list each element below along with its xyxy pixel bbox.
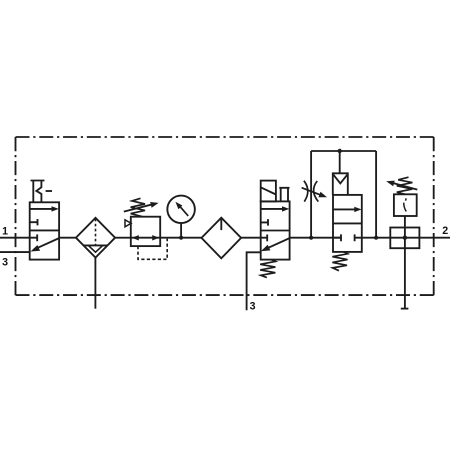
wire pressure switch riser and drop [404,216,406,309]
wire filter to regulator [115,237,131,239]
lubricator drip line [220,218,222,230]
valve V2 bottom position exhaust path arrow [261,238,290,251]
junction node right of V3 [374,236,378,240]
wire port 1 inlet [0,237,37,239]
port 1 label [2,225,8,237]
valve V3 return spring [332,252,347,271]
wire regulator to lubricator [160,237,201,239]
pressure gauge G1 stem [180,223,182,238]
regulator left arrowhead [132,235,139,240]
wire filter condensate drain [94,258,96,309]
wire valve V2 port 3 exhaust [247,252,261,310]
wire lubricator to valve V2 [241,237,267,239]
check valve poppet V [333,174,347,183]
wire V1 to filter [59,237,76,239]
filter separator chord [84,244,108,246]
pressure gauge G1 dial [167,196,195,224]
valve V3 top position flow path arrow [333,207,362,212]
svg-text:2: 2 [442,225,448,237]
regulator right arrowhead [152,235,159,240]
pressure switch spring [397,177,413,194]
pressure regulator R1 body [131,217,160,246]
soft-start valve V2 body (3/2 way) [261,201,290,259]
valve V2 manual override [279,188,289,202]
svg-text:1: 1 [2,225,8,237]
filter drain triangle [88,245,103,252]
on-off valve V1 body (3/2 way) [30,202,59,259]
regulator adjustment spring [131,198,145,216]
svg-text:3: 3 [250,301,256,313]
valve V2 top position flow path arrow [261,206,290,211]
regulator flow line through body [131,237,160,239]
pressure switch PS sensing block [390,228,419,249]
port 3 label (left) [2,257,8,269]
pressure gauge needle [175,202,188,216]
pressure switch contact box [394,194,417,216]
valve V3 bottom position blocked ports [333,234,362,241]
pressure switch adjustment arrow [386,181,417,190]
wire bypass top [311,150,376,152]
enclosure border (dash-dot frame) [16,137,434,295]
throttle adjustment arrow [302,188,327,198]
filter element dashed line [95,219,97,245]
valve V2 top position blocked port [261,219,268,226]
valve V1 manual actuator with detent [31,181,53,203]
regulator pilot feedback dashed line [138,239,167,260]
wire branch riser left [310,151,312,238]
svg-text:3: 3 [2,257,8,269]
valve V2 return spring [260,260,275,278]
wire drop to check valve [339,151,341,173]
check valve box [333,173,348,195]
filter with water separator F1 [76,218,115,258]
junction node at throttle branch [309,236,313,240]
valve V2 bottom position blocked port bar [266,235,268,242]
lubricator L1 [202,218,242,259]
valve V1 top position flow path arrow [30,206,59,211]
throttle valve (flow restrictor) arcs [304,181,318,202]
valve V2 pneumatic pilot box [261,181,276,202]
wire V2 to V3 [290,237,341,239]
valve V1 bottom position exhaust path arrow [31,238,60,251]
valve V1 bottom position blocked port bar [36,234,38,241]
wire bypass right drop [375,151,377,238]
wire port 3 exhaust (left) [0,251,30,253]
junction dot in sensing block [403,236,407,240]
junction dot at gauge [179,236,183,240]
regulator relief triangle [125,220,131,227]
port 2 label [442,225,448,237]
junction node on top line [338,149,342,153]
valve V1 top position blocked port [30,219,38,225]
wire V3 to pressure switch and port 2 [362,237,450,239]
pressure switch drop end cap [401,308,409,310]
port 3 label (bottom) [250,301,256,313]
regulator adjustment arrow [124,202,159,212]
slow-start valve V3 body (2/2 way) [333,195,362,252]
pressure switch contact symbol [404,198,407,211]
